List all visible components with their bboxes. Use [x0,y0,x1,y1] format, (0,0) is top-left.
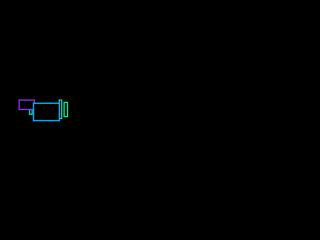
big blue rectangle [34,103,60,120]
teal bar 1 [59,100,62,118]
purple rectangle [19,100,34,109]
small green rectangle [30,110,33,115]
canvas of colored window rectangles [0,0,200,150]
green bar 2 [64,102,67,116]
